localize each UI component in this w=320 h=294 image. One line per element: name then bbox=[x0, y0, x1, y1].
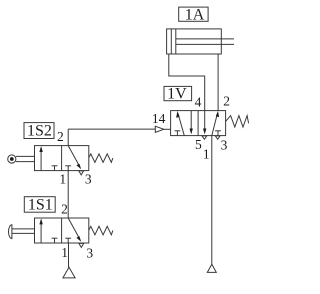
svg-text:2: 2 bbox=[223, 94, 230, 109]
svg-text:2: 2 bbox=[61, 201, 68, 216]
svg-text:14: 14 bbox=[152, 111, 166, 126]
svg-text:2: 2 bbox=[57, 129, 64, 144]
svg-text:3: 3 bbox=[86, 245, 93, 260]
svg-text:3: 3 bbox=[221, 137, 228, 152]
svg-text:1A: 1A bbox=[185, 6, 205, 23]
svg-text:1: 1 bbox=[61, 245, 68, 260]
svg-text:1S2: 1S2 bbox=[27, 123, 52, 140]
svg-text:3: 3 bbox=[85, 171, 92, 186]
svg-text:4: 4 bbox=[195, 94, 202, 109]
svg-text:1V: 1V bbox=[167, 86, 187, 103]
svg-text:1S1: 1S1 bbox=[28, 197, 53, 214]
svg-text:5: 5 bbox=[195, 137, 202, 152]
svg-text:1: 1 bbox=[203, 146, 210, 161]
svg-text:1: 1 bbox=[59, 171, 66, 186]
